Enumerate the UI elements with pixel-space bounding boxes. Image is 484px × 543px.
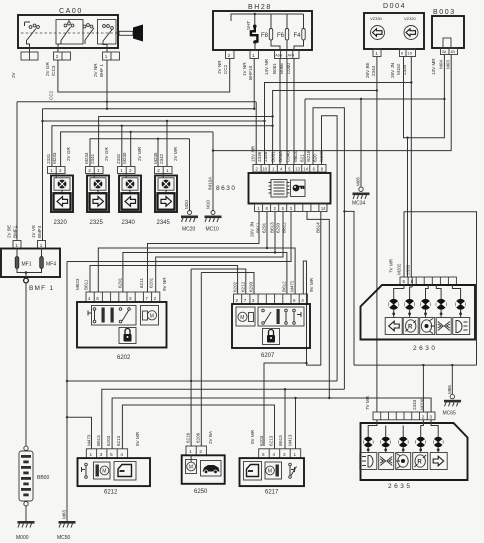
2320 title (54, 220, 68, 226)
2630 labels (389, 258, 411, 275)
svg-text:M235: M235 (153, 152, 158, 164)
label 2V BE BMF1 (7, 225, 18, 238)
svg-text:M230: M230 (122, 152, 127, 164)
svg-text:5: 5 (403, 279, 406, 284)
turn indicator 2320 body (51, 174, 73, 213)
label 2V GR /CC3 (45, 62, 56, 76)
svg-text:M: M (102, 469, 106, 475)
svg-text:BHF 1: BHF 1 (99, 64, 104, 77)
wire 2333 branch to 2630 pin6 (406, 137, 408, 278)
2635 title (388, 483, 412, 490)
svg-text:MF1: MF1 (22, 262, 32, 268)
6212 title (104, 490, 118, 496)
svg-text:2346: 2346 (263, 151, 268, 162)
indicator pilot unit D004 body (364, 13, 424, 49)
svg-text:2V NR: 2V NR (217, 60, 222, 74)
wire P1 (67, 380, 337, 382)
svg-text:2: 2 (256, 167, 259, 172)
svg-text:3: 3 (252, 298, 255, 303)
svg-text:M413: M413 (288, 434, 293, 446)
svg-text:2320: 2320 (54, 220, 68, 226)
CA00 switch contact 1 (25, 22, 40, 48)
svg-text:M65: M65 (447, 385, 452, 394)
svg-text:2333: 2333 (406, 264, 411, 275)
6217 switch (289, 463, 297, 478)
svg-text:2: 2 (199, 449, 202, 454)
label M63 (62, 510, 67, 519)
D004 pin 615 (400, 49, 416, 57)
svg-text:D004: D004 (383, 3, 406, 10)
svg-text:BB00: BB00 (37, 475, 49, 481)
svg-text:BHF10: BHF10 (248, 65, 253, 80)
svg-text:M473: M473 (87, 434, 92, 446)
svg-text:MC34: MC34 (352, 201, 366, 207)
label C040 (286, 63, 291, 74)
label B066 (279, 63, 284, 74)
label M20 (184, 200, 189, 209)
6207 labels (233, 277, 315, 292)
wire C040 (293, 59, 295, 165)
svg-text:F4: F4 (294, 33, 302, 39)
svg-text:R: R (417, 460, 422, 466)
svg-text:M233: M233 (52, 152, 57, 164)
svg-text:2325: 2325 (90, 220, 104, 226)
svg-text:MC65: MC65 (443, 411, 457, 417)
door lock unit 6207 connector (234, 294, 308, 304)
lock unit 6212 connector (86, 449, 127, 458)
svg-text:2V MR: 2V MR (137, 146, 142, 161)
svg-text:3A: 3A (442, 50, 447, 54)
svg-text:M820: M820 (293, 150, 298, 162)
svg-text:6213: 6213 (269, 435, 274, 446)
wire V3 jog to W1 (344, 211, 354, 365)
svg-text:1: 1 (97, 168, 100, 173)
label 26V JN M152 2334 (390, 63, 407, 78)
6217 door icon (244, 462, 262, 481)
BMF1 internal junction (17, 269, 42, 278)
svg-text:M472: M472 (290, 280, 295, 292)
door lock unit 6207 body (232, 304, 310, 348)
wire CC2 (CA00 pin2 to BH28 pin2) (58, 59, 230, 93)
svg-text:6212: 6212 (104, 490, 118, 496)
2635 lamp 5 (431, 420, 443, 453)
2630 icon left-arrow (385, 318, 402, 335)
wire HB1 (2345 pin1 feed) (41, 120, 265, 167)
ground MC20 (181, 211, 198, 233)
turn indicator 2345 body (155, 174, 177, 213)
label 26V BE 2344 (365, 62, 376, 78)
label 2332 M230 (116, 152, 127, 164)
svg-text:A9A: A9A (275, 54, 282, 58)
svg-text:M: M (240, 315, 244, 321)
svg-text:14: 14 (303, 167, 308, 172)
rail Rc (6202 c5 / 8630 c3 / 6207 c7) (123, 212, 287, 295)
svg-text:SHT: SHT (246, 21, 251, 30)
svg-text:2342: 2342 (159, 153, 164, 164)
rail Re (left long vertical / 8630 c5) (66, 212, 291, 524)
svg-text:B613: B613 (96, 435, 101, 446)
svg-text:MC20: MC20 (182, 227, 196, 233)
6250 motor (186, 455, 197, 473)
6207 title (261, 353, 275, 359)
wire 9V MR chain (6207 c9 to 8630 c14) (303, 212, 321, 366)
turn indicator 2325 pins (86, 167, 104, 174)
label 13V MR (431, 58, 436, 75)
wire HB2 (2320/2340 pin1) (52, 125, 274, 167)
wire 2344 (D004 pin1 down to 2635) (273, 57, 378, 413)
svg-text:M63: M63 (62, 510, 67, 519)
svg-text:8: 8 (321, 167, 324, 172)
CA00 knob (119, 25, 143, 42)
svg-text:7V MR: 7V MR (365, 395, 370, 410)
svg-text:9V NR: 9V NR (162, 277, 167, 291)
wire P1 jog to 6212 pin1 (67, 417, 92, 449)
relay fuse unit BMF1 pins (13, 241, 46, 249)
wire HB3 (2320/2340 pin2 to MC10) (61, 131, 215, 211)
svg-text:2341: 2341 (90, 153, 95, 164)
label 2331 M233 (46, 152, 57, 164)
svg-text:1: 1 (120, 168, 123, 173)
svg-text:6206: 6206 (196, 432, 201, 443)
label M10A (208, 176, 213, 190)
svg-text:8630: 8630 (216, 185, 236, 192)
8630 top connector (253, 165, 326, 173)
6212 labels (87, 431, 141, 446)
relay fuse unit BMF1 body (1, 249, 60, 278)
6202 motor (141, 306, 159, 326)
svg-text:B066: B066 (278, 151, 283, 162)
label M04 (439, 60, 444, 69)
svg-text:1V VE: 1V VE (31, 225, 36, 238)
CA00 connector pin 2 (54, 48, 71, 60)
svg-text:M10: M10 (206, 200, 211, 209)
instrument cluster 2630 body (361, 285, 476, 340)
turn indicator 2325 body (87, 174, 109, 213)
wire HB4 (2325/2345 pin2 to MC20) (90, 138, 190, 211)
svg-text:15: 15 (408, 51, 413, 56)
central locking module 8630 title (216, 185, 236, 192)
svg-text:3: 3 (100, 452, 103, 457)
svg-text:VZ330: VZ330 (370, 16, 383, 21)
label M234 2341 (84, 152, 95, 164)
CA00 switch contact 4 (103, 25, 114, 48)
B003 pins (441, 48, 458, 55)
CA00 connector pins left (21, 48, 38, 60)
ground MC65 (443, 365, 462, 416)
svg-text:620: 620 (313, 154, 318, 162)
2345 title (157, 220, 171, 226)
6250 car icon (201, 461, 222, 477)
svg-text:6201: 6201 (149, 277, 154, 288)
svg-text:B081: B081 (271, 151, 276, 162)
wire 2334 (D004 to 8630) (265, 57, 413, 278)
6212 door icon (114, 462, 136, 481)
label B081 (272, 63, 277, 74)
svg-text:2334: 2334 (402, 64, 407, 75)
svg-text:6293: 6293 (276, 222, 281, 233)
6250 title (194, 489, 208, 495)
2630 lamp 1 (389, 285, 405, 318)
6217 motor (265, 462, 282, 479)
svg-text:2V BA: 2V BA (208, 430, 213, 444)
wire M202 loop around 2630 (404, 212, 477, 365)
svg-text:5: 5 (110, 452, 113, 457)
shunt SHT (246, 14, 257, 50)
6207 motor (236, 307, 255, 326)
8630 top labels (251, 145, 325, 162)
lock unit 6217 connector (259, 449, 301, 458)
label M235 2342 (153, 152, 164, 164)
svg-text:7: 7 (145, 296, 148, 301)
6207 padlock icon (263, 329, 280, 345)
2340 left arrow icon (122, 193, 139, 210)
wire M03 (B003 to MC10 via M10A) (213, 55, 451, 151)
svg-text:BH28: BH28 (248, 4, 272, 11)
svg-text:6: 6 (401, 51, 404, 56)
label 1V NR BHF10 (242, 62, 253, 80)
2635 icon R with slash (413, 453, 428, 470)
svg-text:6211: 6211 (139, 278, 144, 288)
svg-text:CC2: CC2 (223, 64, 228, 74)
6202 switch group (88, 306, 136, 326)
rail Rb (6202 c2 / 8630 c2 / 6207 c8) (98, 212, 295, 295)
svg-text:1: 1 (40, 243, 43, 248)
label M03 (446, 60, 451, 69)
2630 lamp 4 (436, 285, 446, 318)
svg-text:6203: 6203 (259, 435, 264, 446)
6202 title (117, 355, 131, 361)
svg-text:3: 3 (129, 296, 132, 301)
svg-text:15V NR: 15V NR (251, 145, 256, 162)
label 2V NR BHF1 (93, 63, 104, 77)
svg-text:BMF 1: BMF 1 (29, 285, 54, 292)
svg-text:6: 6 (96, 296, 99, 301)
svg-text:2: 2 (129, 168, 132, 173)
label 14V NR (264, 58, 269, 75)
svg-text:C040: C040 (286, 151, 291, 162)
label 1V VE BMF4 (31, 225, 42, 238)
svg-text:4: 4 (88, 296, 91, 301)
label 2V MR (1) (137, 146, 142, 161)
turn indicator 2340 body (119, 174, 141, 213)
svg-text:1: 1 (189, 449, 192, 454)
svg-text:6291: 6291 (262, 222, 267, 233)
svg-text:3: 3 (430, 414, 433, 419)
svg-text:1: 1 (90, 452, 93, 457)
2630 icon brake (P) (403, 318, 418, 335)
fuse MF1 (15, 249, 32, 269)
svg-text:10: 10 (262, 167, 267, 172)
8630 bottom connector (255, 204, 328, 212)
svg-text:6202: 6202 (117, 355, 131, 361)
rail Ra (8630 c1 to 6202 c8) (148, 212, 260, 293)
battery BB00 wire top (25, 283, 27, 446)
svg-text:M: M (268, 469, 272, 475)
svg-text:5V MR: 5V MR (135, 431, 140, 446)
2635 icon lighting (396, 453, 411, 470)
ground MC10 (205, 211, 222, 233)
svg-text:5: 5 (282, 206, 285, 211)
label 2V GR (2) (104, 147, 109, 161)
rail Rf (6202 c1 / 6207 c1) (90, 266, 238, 295)
battery BB00 (19, 446, 49, 506)
svg-text:2V: 2V (11, 71, 16, 78)
svg-text:B081: B081 (272, 63, 277, 74)
svg-text:M: M (150, 314, 154, 320)
svg-text:B612: B612 (282, 281, 287, 292)
svg-text:MF4: MF4 (46, 262, 56, 268)
6250 labels (186, 430, 214, 444)
wire hairpin 620 (8630 c8 over to V2) (313, 108, 346, 389)
svg-text:/M10A: /M10A (208, 176, 213, 190)
svg-text:1: 1 (166, 168, 169, 173)
fuse box BH28 title (248, 4, 272, 11)
svg-text:1: 1 (272, 167, 275, 172)
svg-text:2: 2 (154, 296, 157, 301)
svg-text:13V MR: 13V MR (431, 58, 436, 75)
label CC2 mid-wire (49, 90, 54, 100)
svg-text:6203: 6203 (106, 435, 111, 446)
wire M04 (B003 to D004 M152 and MC34) (305, 55, 446, 165)
BH28 fuse output connector (275, 51, 300, 59)
svg-text:AF4: AF4 (288, 54, 295, 58)
2630 title (413, 345, 437, 352)
svg-text:2343: 2343 (412, 399, 417, 410)
wire 8630 c7 to P3 (307, 212, 330, 400)
svg-text:2: 2 (88, 168, 91, 173)
fuse MF4 (40, 249, 57, 269)
2345 right arrow icon (158, 193, 175, 210)
svg-text:5V MR: 5V MR (250, 429, 255, 444)
D004 lamp VZ320 (404, 16, 418, 40)
svg-text:13: 13 (295, 167, 300, 172)
svg-text:M: M (189, 465, 193, 471)
hazard switch B003 title (433, 9, 456, 16)
svg-text:3: 3 (283, 452, 286, 457)
svg-text:5: 5 (262, 452, 265, 457)
svg-text:1: 1 (105, 54, 108, 59)
svg-text:4: 4 (301, 298, 304, 303)
2630 lamp 3 (420, 285, 430, 318)
ignition switch CA00 title (59, 8, 83, 15)
label 2V GR (1) (66, 147, 71, 161)
BH28 pin 2 (226, 51, 235, 59)
svg-text:1B: 1B (450, 50, 455, 54)
svg-text:2630: 2630 (413, 345, 437, 352)
2325 right arrow icon (90, 193, 107, 210)
hazard switch B003 body (432, 16, 464, 48)
2635 icon right-arrow (430, 453, 447, 470)
svg-text:CA00: CA00 (59, 8, 83, 15)
2635 lamp 4 (416, 420, 426, 453)
6212 motor (94, 462, 111, 479)
svg-text:9V MR: 9V MR (309, 277, 314, 292)
instrument cluster 2635 connector (373, 412, 435, 420)
wire P0 (B614 rail) (264, 362, 308, 446)
svg-text:7V MR: 7V MR (389, 258, 394, 273)
svg-text:4: 4 (120, 452, 123, 457)
svg-text:VZ320: VZ320 (404, 16, 417, 21)
svg-text:B611: B611 (84, 279, 89, 290)
svg-text:M04: M04 (439, 60, 444, 69)
svg-text:2344: 2344 (371, 65, 376, 76)
svg-text:B611: B611 (256, 222, 261, 233)
wire P2 (102, 388, 345, 449)
svg-text:M200: M200 (420, 398, 425, 410)
wire P3 (112, 397, 431, 449)
svg-text:2331: 2331 (46, 153, 51, 164)
svg-text:1V NR: 1V NR (242, 62, 247, 76)
BH28 pin 1 (250, 51, 259, 59)
svg-text:14V NR: 14V NR (264, 58, 269, 75)
svg-text:MC10: MC10 (206, 227, 220, 233)
label 2V (CA00 left) (11, 71, 16, 78)
svg-text:26V JN: 26V JN (250, 222, 255, 237)
svg-text:7: 7 (244, 298, 247, 303)
svg-text:1: 1 (15, 243, 18, 248)
svg-text:B612: B612 (282, 222, 287, 233)
svg-text:1: 1 (252, 53, 255, 58)
svg-text:6202: 6202 (233, 281, 238, 292)
svg-text:BMF4: BMF4 (37, 225, 42, 238)
svg-text:2340: 2340 (122, 220, 136, 226)
svg-text:F6: F6 (277, 33, 285, 39)
svg-text:621: 621 (300, 154, 305, 162)
svg-text:B614: B614 (316, 222, 321, 233)
svg-text:5: 5 (288, 167, 291, 172)
CA00 switch contact 2 (58, 20, 74, 48)
svg-text:4: 4 (273, 452, 276, 457)
CA00 connector pin 1 (103, 48, 120, 60)
svg-text:1: 1 (294, 452, 297, 457)
svg-text:M20: M20 (184, 200, 189, 209)
CA00 switch contact 3 (83, 24, 94, 44)
ground MC34 (352, 99, 370, 207)
2630 lamp 5 (452, 285, 465, 318)
svg-text:MC50: MC50 (57, 535, 71, 541)
6212 switch (82, 463, 88, 478)
svg-text:6207: 6207 (261, 353, 275, 359)
svg-text:2336: 2336 (257, 151, 262, 162)
BMF1 terminal (24, 278, 55, 292)
svg-text:B613: B613 (270, 222, 275, 233)
svg-text:CC2: CC2 (49, 90, 54, 100)
boot lock 6250 body (182, 455, 225, 484)
8630 body (249, 173, 331, 204)
8630 key icon (291, 180, 306, 197)
svg-text:R: R (408, 325, 413, 331)
svg-text:BMF1: BMF1 (13, 225, 18, 238)
svg-text:M03: M03 (446, 60, 451, 69)
svg-text:B003: B003 (433, 9, 456, 16)
svg-text:2V MR: 2V MR (173, 146, 178, 161)
svg-text:2: 2 (274, 206, 277, 211)
6202 labels (75, 277, 167, 291)
svg-text:26V BE: 26V BE (365, 62, 370, 78)
2320 left arrow icon (54, 193, 71, 210)
2340 title (122, 220, 136, 226)
2325 title (90, 220, 104, 226)
fuse F4 (294, 14, 306, 51)
svg-text:6: 6 (293, 298, 296, 303)
ground MC50 (57, 521, 76, 541)
2630 icon main beam (436, 318, 451, 335)
8630 IC chip icon (269, 180, 290, 198)
svg-text:2: 2 (56, 54, 59, 59)
svg-text:2: 2 (157, 168, 160, 173)
svg-text:1: 1 (258, 206, 261, 211)
turn indicator 2320 pins (48, 167, 66, 174)
